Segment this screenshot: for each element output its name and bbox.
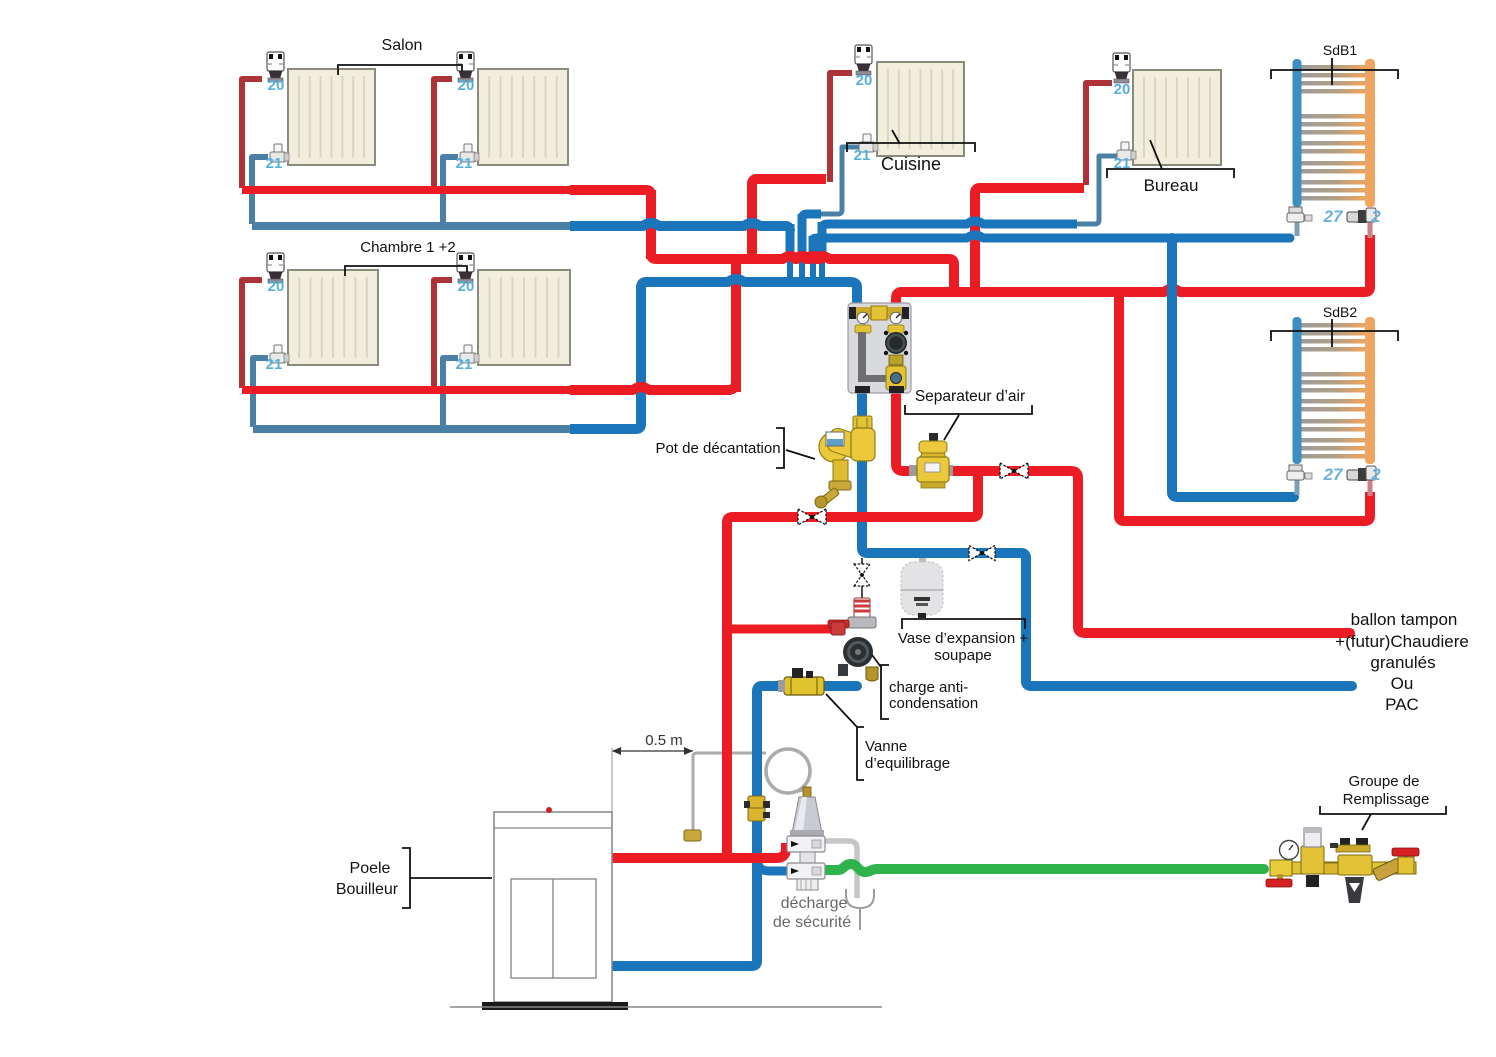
wire red supply Chambre thin bbox=[242, 386, 572, 394]
valve on buffer return line bbox=[969, 546, 995, 561]
valve on boiler supply header bbox=[798, 509, 826, 525]
wire red branch SdB2 bbox=[1119, 292, 1370, 521]
wire link to expansion vessel and soupape bbox=[861, 558, 863, 600]
thermostatic valve Bureau bbox=[1113, 53, 1130, 83]
wire blue return riser Salon left bbox=[252, 157, 268, 224]
svg-text:2: 2 bbox=[1370, 465, 1381, 484]
capillary tube and coil bbox=[693, 749, 810, 838]
valve symbol on soupape link bbox=[854, 564, 870, 586]
anti-condensation circulator pump bbox=[831, 622, 878, 681]
wire red Cuisine supply branch bbox=[752, 179, 826, 259]
discharge drain pipe bbox=[824, 841, 857, 898]
wire blue drop 3 from SdB return header bbox=[809, 236, 818, 254]
thermostatic valve Salon left bbox=[267, 52, 284, 82]
bracket Cuisine bbox=[847, 130, 975, 152]
svg-text:d’equilibrage: d’equilibrage bbox=[865, 755, 950, 772]
wire blue header to pump group bbox=[641, 279, 857, 305]
svg-text:2: 2 bbox=[1370, 207, 1381, 226]
radiator Salon left bbox=[288, 69, 375, 165]
bracket charge anti-condensation bbox=[872, 655, 889, 719]
groupe de remplissage (filling group) bbox=[1266, 828, 1419, 903]
wire blue drop 4 from Bureau return header bbox=[818, 222, 827, 254]
svg-text:Vase d’expansion +: Vase d’expansion + bbox=[898, 630, 1028, 647]
svg-text:Groupe de: Groupe de bbox=[1349, 773, 1420, 790]
svg-text:27: 27 bbox=[1323, 465, 1344, 484]
valves SdB2 bbox=[1287, 465, 1376, 481]
svg-text:20: 20 bbox=[458, 77, 475, 94]
thermostatic valve Cuisine bbox=[855, 45, 872, 75]
svg-text:Bouilleur: Bouilleur bbox=[336, 881, 399, 898]
wire blue Cuisine return connector bbox=[802, 214, 821, 219]
valve on air separator line bbox=[1000, 463, 1028, 479]
sensor pocket bbox=[684, 830, 701, 841]
svg-text:SdB2: SdB2 bbox=[1323, 304, 1357, 320]
svg-text:décharge: décharge bbox=[781, 895, 848, 912]
wire blue stub SdB1 bbox=[1295, 220, 1300, 236]
wire red pump to air separator bbox=[896, 395, 1350, 633]
wire blue boiler return bbox=[612, 686, 857, 966]
wire red riser Chambre left radiator bbox=[242, 280, 262, 388]
wire blue return riser Salon right bbox=[443, 157, 458, 224]
wire red riser Cuisine bbox=[830, 73, 852, 182]
svg-text:21: 21 bbox=[456, 356, 473, 373]
svg-text:Pot de décantation: Pot de décantation bbox=[655, 440, 780, 457]
bracket Vanne d'equilibrage bbox=[826, 694, 864, 780]
svg-text:Bureau: Bureau bbox=[1144, 176, 1199, 195]
bracket Chambre bbox=[345, 266, 467, 276]
vase d'expansion (expansion vessel) bbox=[901, 558, 943, 618]
wire red supply Chambre main bbox=[570, 259, 736, 392]
thermostatic valve Salon right bbox=[457, 52, 474, 82]
wire blue drop 4 lower bbox=[819, 252, 825, 281]
pump group Poele circuit bbox=[848, 303, 911, 393]
wire red supply Salon main bbox=[570, 190, 651, 195]
svg-text:21: 21 bbox=[266, 155, 283, 172]
return valve Salon left bbox=[270, 144, 289, 162]
wire red riser Salon right radiator bbox=[434, 79, 452, 188]
svg-text:20: 20 bbox=[1114, 81, 1131, 98]
svg-text:20: 20 bbox=[268, 77, 285, 94]
svg-text:charge anti-: charge anti- bbox=[889, 679, 968, 696]
return valve Chambre right bbox=[460, 345, 479, 363]
wire red riser Bureau bbox=[1086, 83, 1112, 185]
svg-text:SdB1: SdB1 bbox=[1323, 42, 1357, 58]
soupape (safety valve) bbox=[828, 598, 876, 628]
towel radiator SdB1 bbox=[1293, 59, 1376, 207]
svg-text:granulés: granulés bbox=[1370, 653, 1435, 672]
wire red stub SdB2 bbox=[1368, 478, 1373, 496]
thermostatic valve Chambre left bbox=[267, 253, 284, 283]
svg-text:Ou: Ou bbox=[1391, 674, 1414, 693]
radiator Cuisine bbox=[877, 62, 964, 156]
wire blue return riser Chambre left bbox=[253, 358, 268, 427]
svg-text:27: 27 bbox=[1323, 207, 1344, 226]
bracket Pot de decantation bbox=[776, 428, 815, 468]
fill valve on boiler return bbox=[744, 796, 770, 821]
wire blue return header Bureau bbox=[822, 221, 1077, 230]
wire red supply Salon thin bbox=[242, 186, 572, 194]
wire blue drop 2 from Cuisine return bbox=[798, 214, 807, 254]
svg-text:Cuisine: Cuisine bbox=[881, 154, 941, 174]
svg-text:0.5 m: 0.5 m bbox=[645, 732, 683, 749]
wire blue return riser Bureau bbox=[1075, 156, 1117, 224]
drain funnel bbox=[846, 889, 874, 930]
air separator (Separateur d'air) bbox=[909, 433, 953, 488]
bracket Separateur d'air bbox=[905, 405, 1032, 440]
bracket Groupe de Remplissage bbox=[1320, 806, 1446, 830]
svg-text:condensation: condensation bbox=[889, 695, 978, 712]
svg-text:ballon tampon: ballon tampon bbox=[1351, 610, 1458, 629]
wire blue drop 2 lower bbox=[799, 252, 805, 281]
wire green cold water supply bbox=[826, 864, 1264, 872]
bracket Vase d'expansion bbox=[902, 619, 1025, 629]
wire red riser Chambre right radiator bbox=[434, 280, 452, 388]
wire blue return Chambre thin bbox=[253, 425, 572, 433]
wire blue return header Salon main bbox=[570, 223, 790, 231]
wire red boiler outlet bbox=[612, 843, 786, 858]
ground line bbox=[450, 1006, 882, 1008]
wire red boiler supply riser bbox=[727, 471, 978, 856]
svg-text:21: 21 bbox=[456, 155, 473, 172]
svg-text:Remplissage: Remplissage bbox=[1343, 791, 1430, 808]
svg-text:Separateur d’air: Separateur d’air bbox=[915, 388, 1025, 405]
wire blue return header Salon thin bbox=[252, 222, 572, 230]
wire red Bureau supply branch bbox=[975, 188, 1084, 290]
wire blue return header SdB bbox=[813, 235, 1290, 240]
svg-text:20: 20 bbox=[458, 278, 475, 295]
wire blue return Chambre riser to header bbox=[570, 285, 641, 429]
wire red main distribution bbox=[651, 235, 1370, 292]
thermic discharge valve (decharge de securite) bbox=[787, 787, 825, 890]
wire red main to pump group bbox=[896, 292, 958, 306]
svg-text:+(futur)Chaudiere: +(futur)Chaudiere bbox=[1335, 632, 1469, 651]
wire red stub SdB1 bbox=[1368, 220, 1373, 238]
wire blue return to buffer bbox=[862, 393, 1352, 686]
towel radiator SdB2 bbox=[1293, 317, 1376, 464]
bracket SdB1 bbox=[1271, 58, 1398, 85]
radiator Chambre left bbox=[288, 270, 378, 365]
svg-text:PAC: PAC bbox=[1385, 695, 1419, 714]
valves SdB1 bbox=[1287, 207, 1376, 223]
wire blue return SdB2 bbox=[1172, 238, 1294, 497]
radiator Salon right bbox=[478, 69, 568, 165]
wire red riser Salon left radiator bbox=[242, 79, 262, 188]
svg-text:Salon: Salon bbox=[382, 37, 423, 54]
pot de decantation (dirt separator) bbox=[815, 416, 875, 508]
svg-text:Chambre 1 +2: Chambre 1 +2 bbox=[360, 239, 455, 256]
return valve Chambre left bbox=[270, 345, 289, 363]
radiator Bureau bbox=[1133, 70, 1221, 165]
wire red supply Chambre corner bbox=[728, 382, 736, 390]
return valve Bureau bbox=[1117, 142, 1136, 160]
svg-text:21: 21 bbox=[854, 147, 871, 164]
svg-text:soupape: soupape bbox=[934, 647, 992, 664]
bracket Poele Bouilleur bbox=[402, 848, 492, 908]
thermostatic valve Chambre right bbox=[457, 253, 474, 283]
wire red drop from Salon supply bbox=[646, 190, 656, 259]
svg-text:Vanne: Vanne bbox=[865, 738, 907, 755]
bracket SdB2 bbox=[1271, 319, 1398, 347]
bracket Salon bbox=[338, 65, 462, 75]
return valve Salon right bbox=[460, 144, 479, 162]
wire blue stub SdB2 bbox=[1295, 478, 1300, 495]
vanne d'equilibrage (balancing valve) bbox=[778, 668, 824, 695]
svg-text:Poele: Poele bbox=[350, 860, 391, 877]
boiler Poele Bouilleur bbox=[494, 807, 612, 1002]
dimension 0.5m bbox=[612, 747, 693, 812]
wire blue drop 1 lower bbox=[787, 252, 793, 281]
wire blue drop 1 from Salon return header bbox=[786, 224, 795, 254]
svg-text:20: 20 bbox=[268, 278, 285, 295]
return valve Cuisine bbox=[859, 134, 878, 152]
svg-text:de sécurité: de sécurité bbox=[773, 914, 851, 931]
bracket Bureau bbox=[1107, 140, 1234, 178]
wire red branch anti-condensation bbox=[727, 625, 836, 634]
svg-text:21: 21 bbox=[266, 356, 283, 373]
wire blue return riser Cuisine bbox=[820, 147, 859, 214]
boiler base bbox=[482, 1002, 628, 1010]
wire blue drop 3 lower bbox=[810, 252, 816, 281]
svg-text:20: 20 bbox=[856, 72, 873, 89]
wire blue branch to discharge valve bbox=[757, 855, 790, 871]
wire blue return riser Chambre right bbox=[443, 358, 458, 427]
radiator Chambre right bbox=[478, 270, 570, 365]
